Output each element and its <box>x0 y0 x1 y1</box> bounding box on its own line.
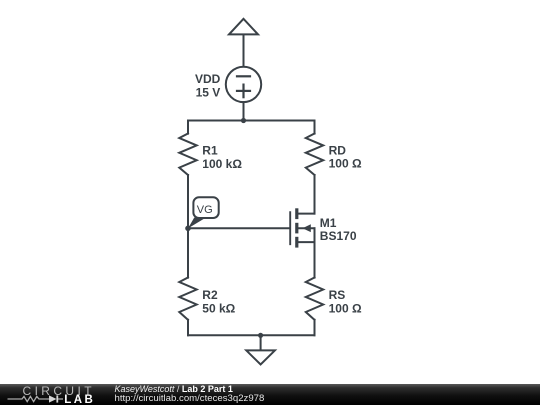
wire RD to drain M1 <box>314 175 316 214</box>
resistor R2 <box>179 278 196 320</box>
svg-text:M1: M1 <box>320 216 337 230</box>
power flag VDD arrow <box>229 19 258 67</box>
wire right branch upper <box>314 121 316 134</box>
svg-text:100 Ω: 100 Ω <box>329 157 362 171</box>
wire top rail <box>188 120 315 122</box>
CircuitLab logo <box>8 384 96 405</box>
node VG flag <box>185 197 219 231</box>
svg-text:50 kΩ: 50 kΩ <box>202 301 235 315</box>
wire gate VG to M1 <box>188 227 289 229</box>
junction dot ground <box>258 333 263 338</box>
ground <box>246 335 275 364</box>
svg-text:100 kΩ: 100 kΩ <box>202 157 242 171</box>
svg-text:LAB: LAB <box>64 394 95 405</box>
wire bottom rail <box>188 334 315 336</box>
wire node VG to R2 <box>187 228 189 277</box>
resistor R1 <box>179 134 196 175</box>
footer bar <box>0 384 540 405</box>
resistor RD <box>306 134 323 175</box>
svg-text:RD: RD <box>329 144 347 158</box>
wire source M1 to RS <box>314 242 316 278</box>
svg-text:BS170: BS170 <box>320 229 357 243</box>
junction dot top rail <box>241 118 246 123</box>
svg-text:VDD: VDD <box>195 72 221 86</box>
wire RS to bottom rail <box>314 320 316 336</box>
wire R1 to node VG <box>187 175 189 228</box>
transistor M1 NMOS BS170 <box>290 208 314 247</box>
svg-text:RS: RS <box>329 288 346 302</box>
svg-text:R2: R2 <box>202 288 218 302</box>
svg-text:100 Ω: 100 Ω <box>329 301 362 315</box>
voltage source V1 (VDD 15 V) <box>226 67 261 121</box>
svg-text:VG: VG <box>197 204 213 216</box>
resistor RS <box>306 278 323 320</box>
svg-text:15 V: 15 V <box>196 85 221 99</box>
svg-text:R1: R1 <box>202 144 218 158</box>
svg-text:http://circuitlab.com/cteces3q: http://circuitlab.com/cteces3q2z978 <box>115 393 265 404</box>
wire R2 to bottom rail <box>187 320 189 336</box>
wire left branch upper <box>187 121 189 134</box>
